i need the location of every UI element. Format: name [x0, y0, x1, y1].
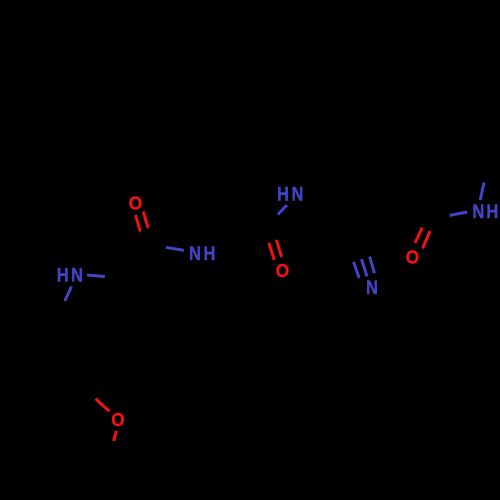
svg-text:N: N [291, 183, 303, 204]
svg-text:O: O [111, 409, 125, 430]
svg-text:N: N [71, 264, 83, 285]
wire: C=O double bond red half, upper line [415, 228, 422, 243]
svg-text:O: O [276, 260, 290, 281]
svg-text:N: N [366, 277, 378, 298]
svg-text:H: H [277, 183, 289, 204]
wire: C=O double bond red half, lower line [423, 231, 430, 249]
wire: C=O double bond red half, right line [276, 240, 281, 257]
svg-text:N: N [472, 201, 484, 222]
wire: C(=O)-N bond blue half [166, 247, 184, 250]
wire: C(=O)-N bond blue half [450, 212, 468, 215]
wire: N-C(=O) bond blue half [278, 205, 287, 214]
svg-text:N: N [189, 243, 201, 264]
svg-text:O: O [406, 247, 420, 268]
wire: C=O double bond red half, right line [143, 212, 148, 228]
wire: C#N triple bond blue half, left line [354, 262, 360, 278]
svg-text:O: O [129, 193, 143, 214]
wire: O-CH3 bond red half [114, 431, 117, 441]
wire: C=O double bond red half, left line [136, 215, 141, 232]
svg-text:H: H [204, 243, 216, 264]
wire: C#N triple bond blue half, middle line [362, 259, 367, 276]
wire: C#N triple bond blue half, right line [370, 257, 375, 274]
svg-text:H: H [486, 201, 498, 222]
wire: N-C7a bond blue half [65, 287, 72, 302]
svg-text:H: H [57, 264, 69, 285]
wire: aryl-O bond red half [96, 399, 110, 411]
wire: C=O double bond red half, left line [269, 243, 275, 260]
wire: N-C2 bond blue half [87, 275, 105, 277]
wire: N-CH3 bond blue half [480, 183, 484, 201]
